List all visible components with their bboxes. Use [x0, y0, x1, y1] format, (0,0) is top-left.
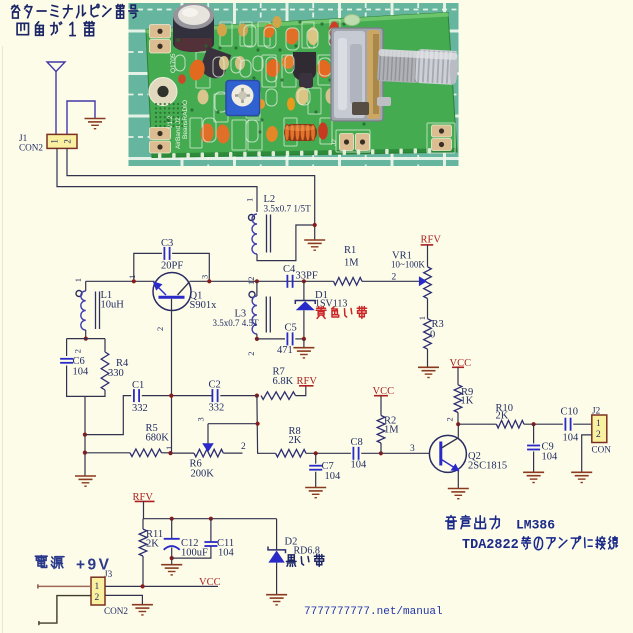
wire C5 left	[257, 338, 285, 340]
svg-text:1: 1	[95, 582, 100, 592]
svg-text:C8: C8	[351, 437, 363, 448]
left border artifact	[2, 46, 4, 633]
svg-text:2: 2	[445, 417, 455, 421]
transistor Q1	[153, 273, 191, 311]
capacitor C5	[287, 332, 292, 345]
wire node to R10	[458, 423, 496, 425]
label R7	[273, 367, 294, 388]
pin 3 label Q1	[200, 275, 210, 279]
pin 1 label R3	[417, 316, 427, 320]
svg-text:3: 3	[410, 444, 415, 454]
wire C11 top	[210, 519, 212, 542]
label R10	[496, 403, 514, 422]
pin 1 label Q1	[127, 275, 137, 279]
label Q1	[190, 291, 218, 312]
label R3	[430, 319, 444, 341]
ground near J1	[85, 119, 106, 129]
pin 2 label R6	[241, 442, 246, 452]
pin 12 label L3	[246, 277, 256, 286]
pin 2 label L1	[73, 349, 83, 353]
svg-text:C6: C6	[73, 356, 85, 367]
PCB photo	[129, 3, 459, 166]
svg-text:C2: C2	[209, 380, 221, 391]
pin 1 label L1	[73, 278, 83, 282]
ground below L2	[304, 240, 325, 250]
node C3 left	[132, 279, 136, 283]
capacitor C9	[527, 446, 540, 450]
svg-text:RFV: RFV	[421, 235, 442, 246]
pin 3 label Q2	[410, 444, 415, 454]
power port VCC R2	[373, 386, 395, 397]
diode D1 varactor	[295, 301, 315, 339]
wire J2 pin2 to ground	[582, 435, 592, 472]
wire J3 pin2 right	[105, 595, 142, 604]
label C3	[161, 238, 183, 272]
svg-text:C1: C1	[132, 380, 144, 391]
svg-text:1M: 1M	[384, 425, 399, 436]
capacitor C10	[565, 418, 570, 431]
svg-text:200K: 200K	[191, 469, 215, 480]
wire R3 to ground	[427, 349, 429, 367]
svg-text:3: 3	[200, 275, 210, 279]
wiper VR1	[419, 276, 427, 286]
resistor R4	[101, 352, 109, 390]
wire VCC to R9	[457, 367, 459, 385]
wire L1 top	[85, 281, 87, 291]
svg-text:1: 1	[73, 278, 83, 282]
resistor R6 pot	[194, 449, 223, 457]
label R4	[108, 358, 129, 379]
svg-text:104: 104	[563, 433, 580, 444]
ground below D1	[293, 348, 314, 358]
wire J1 pin2 to L2 ground node	[67, 148, 315, 240]
node R5 tap	[83, 451, 87, 455]
svg-text:RD6.8: RD6.8	[294, 546, 320, 557]
label yellow band	[316, 307, 366, 319]
svg-text:330: 330	[108, 368, 124, 379]
ground below J2	[571, 472, 592, 482]
wire R6 stub pin2	[223, 452, 242, 454]
pin 2 label VR1	[392, 273, 397, 283]
title line1 各ターミナルピン番号	[12, 4, 138, 18]
label R1	[344, 245, 359, 269]
caption amp connect	[462, 536, 617, 553]
label L1	[101, 290, 125, 311]
wire D2 down	[276, 519, 278, 550]
antenna	[47, 62, 65, 134]
svg-text:7777777777.net/manual: 7777777777.net/manual	[304, 606, 443, 618]
label C1	[132, 380, 148, 414]
svg-text:1: 1	[596, 419, 601, 429]
node wiper tap	[256, 422, 260, 426]
node R5 R6	[168, 451, 172, 455]
resistor R5	[130, 449, 162, 457]
label R2	[384, 416, 399, 436]
label R5	[146, 423, 170, 444]
wire R7 to RFV	[296, 386, 306, 395]
wire R2 to node	[380, 443, 382, 453]
svg-text:VCC: VCC	[199, 577, 221, 588]
wire VCC to R2	[380, 396, 382, 416]
svg-text:J2: J2	[592, 406, 601, 416]
svg-text:CON2: CON2	[19, 143, 43, 153]
capacitor C4	[287, 275, 292, 288]
label C12	[181, 538, 208, 559]
svg-text:2K: 2K	[289, 435, 302, 446]
label R9	[461, 387, 474, 407]
wire C7	[315, 453, 317, 487]
potentiometer VR1	[424, 267, 432, 299]
capacitor C11	[204, 542, 217, 546]
node C9 tap	[532, 422, 536, 426]
resistor R10	[496, 420, 524, 428]
svg-text:2K: 2K	[496, 411, 509, 422]
wire R11 top	[142, 519, 144, 529]
node Q1 base x C-row	[169, 394, 173, 398]
ground below J3	[132, 605, 153, 615]
svg-text:3.5x0.7 4.5T: 3.5x0.7 4.5T	[213, 318, 260, 328]
label black band	[286, 555, 324, 567]
wire J1 pin1 to L2	[57, 148, 257, 212]
capacitor C7	[309, 466, 322, 470]
wire C12 top	[171, 519, 173, 538]
wire R8 to C8	[306, 452, 351, 454]
svg-text:1: 1	[164, 446, 174, 450]
svg-text:471: 471	[277, 345, 293, 356]
wire C2 to R7 node	[220, 395, 257, 397]
node C1 tap	[83, 433, 87, 437]
pin 1 label L2	[245, 198, 255, 202]
wire R5 left	[85, 452, 130, 454]
svg-text:10~100K: 10~100K	[391, 260, 425, 270]
svg-text:3.5x0.7 1/5T: 3.5x0.7 1/5T	[264, 204, 312, 214]
svg-text:3: 3	[196, 417, 206, 421]
capacitor C1	[134, 389, 139, 402]
wire RFV bus	[144, 501, 277, 518]
node R2 bottom	[379, 451, 383, 455]
svg-text:20PF: 20PF	[161, 261, 183, 272]
wire C11 bottom	[172, 546, 211, 558]
svg-text:R3: R3	[432, 319, 444, 330]
ground below C6R4	[75, 476, 96, 486]
svg-text:6.8K: 6.8K	[273, 376, 294, 387]
node C3 right	[207, 279, 211, 283]
svg-text:2: 2	[73, 349, 83, 353]
pin 2 label Q1	[155, 327, 165, 331]
node C4 right	[302, 279, 306, 283]
svg-text:2: 2	[246, 352, 256, 356]
svg-text:104: 104	[351, 460, 368, 471]
svg-text:C10: C10	[561, 407, 579, 418]
wire L3 bottom	[256, 334, 258, 339]
svg-text:332: 332	[132, 403, 148, 414]
wire RF rail	[86, 280, 420, 282]
svg-text:1: 1	[245, 198, 255, 202]
node C12 top	[170, 517, 174, 521]
resistor R7	[261, 392, 296, 400]
resistor R11	[139, 529, 147, 556]
wire Q1 base down	[171, 299, 173, 454]
svg-text:2: 2	[155, 327, 165, 331]
node C11 bottom join	[170, 556, 174, 560]
label C9	[542, 442, 559, 463]
label C11	[217, 538, 235, 559]
wire C12 bottom	[171, 548, 173, 565]
ground below Q2	[448, 489, 469, 499]
wire R10 to C10	[524, 423, 563, 425]
wiper R6	[202, 424, 257, 453]
label C5	[277, 323, 297, 357]
svg-text:J1: J1	[19, 133, 28, 143]
svg-text:2: 2	[392, 273, 397, 283]
svg-text:R1: R1	[344, 245, 356, 256]
title line2 四角が1番	[17, 22, 94, 36]
wire D1 down	[303, 281, 305, 300]
label D2	[285, 537, 320, 557]
label C7	[322, 461, 342, 482]
node R11 bottom	[141, 584, 145, 588]
svg-text:S901x: S901x	[190, 300, 218, 311]
label D1	[315, 290, 347, 310]
svg-text:104: 104	[73, 367, 90, 378]
power port RFV mid	[297, 376, 318, 387]
svg-text:2: 2	[596, 430, 601, 440]
wire C5 right	[295, 338, 304, 340]
connector J2	[592, 415, 607, 443]
svg-text:LM386: LM386	[516, 518, 555, 533]
svg-text:2SC1815: 2SC1815	[468, 461, 507, 472]
capacitor C6	[60, 359, 73, 363]
node C7 tap	[314, 451, 318, 455]
wire C3 loop	[134, 253, 210, 281]
svg-text:680K: 680K	[146, 433, 170, 444]
ground below C12	[161, 565, 182, 575]
node L3 top	[255, 279, 259, 283]
svg-text:0: 0	[430, 330, 435, 341]
label J3	[104, 569, 113, 579]
power port VCC R9	[450, 358, 472, 369]
wire L1 bottom	[85, 330, 87, 339]
svg-text:1: 1	[50, 139, 60, 144]
inductor L2	[249, 214, 271, 254]
node L3 bottom	[255, 337, 259, 341]
label C6	[73, 356, 90, 378]
label R6	[190, 459, 215, 480]
label VR1	[391, 251, 425, 270]
capacitor C8	[353, 447, 358, 460]
label C2	[209, 380, 225, 414]
resistor R2	[377, 416, 385, 444]
svg-text:TDA2822: TDA2822	[462, 538, 519, 553]
svg-text:2: 2	[63, 139, 73, 144]
node R7 junction	[255, 394, 259, 398]
svg-text:C4: C4	[283, 264, 296, 275]
node C11 top	[209, 517, 213, 521]
svg-text:33PF: 33PF	[296, 271, 318, 282]
connector J3	[91, 577, 105, 605]
wire L3 top	[256, 281, 258, 296]
wire Q2 emitter down	[457, 471, 459, 489]
label power 9V	[35, 556, 111, 574]
wire battery minus	[39, 596, 91, 626]
label CON2 J3	[104, 606, 128, 616]
pin 3 label R6	[196, 417, 206, 421]
ground below R3	[418, 367, 439, 377]
node Q2 collector	[456, 422, 460, 426]
label R8	[289, 426, 302, 446]
label J2	[592, 406, 612, 455]
svg-text:2: 2	[95, 593, 100, 603]
svg-text:1K: 1K	[461, 396, 474, 407]
wire R7node to R8	[257, 396, 276, 454]
ground below C9	[523, 472, 544, 482]
wire C10 to J2	[573, 423, 592, 425]
wire C1 to C2	[142, 395, 213, 397]
wire battery plus	[38, 584, 91, 588]
diode D2 zener	[268, 547, 286, 595]
ground below D2	[266, 595, 287, 605]
node L2 ground junction	[313, 223, 317, 227]
svg-text:CON: CON	[592, 445, 612, 455]
label J1 CON2	[19, 133, 43, 153]
pin 2 label L3	[246, 352, 256, 356]
label C10	[561, 407, 580, 444]
wire R11 bottom	[142, 556, 144, 586]
svg-text:1: 1	[127, 275, 137, 279]
node D1 bottom	[302, 337, 306, 341]
label L2	[264, 194, 312, 214]
svg-text:2: 2	[241, 442, 246, 452]
svg-text:1: 1	[417, 316, 427, 320]
svg-text:104: 104	[542, 452, 559, 463]
pin 1 label R6	[164, 446, 174, 450]
svg-text:1M: 1M	[344, 258, 359, 269]
power port RFV bottom	[133, 492, 155, 503]
wire L2 bottom loop	[257, 225, 315, 261]
inductor L3	[249, 292, 270, 335]
wire Q2 collector up	[457, 424, 459, 438]
svg-text:100uF: 100uF	[181, 548, 208, 559]
node R11 top	[0, 0, 1, 1]
ground below C7	[305, 488, 326, 498]
wire VR1 to R3	[427, 299, 429, 319]
label C4	[283, 264, 318, 282]
label L3	[213, 309, 260, 329]
label Q2	[468, 451, 507, 472]
svg-text:C5: C5	[285, 323, 297, 334]
label R11	[146, 529, 163, 550]
svg-text:10uH: 10uH	[101, 300, 125, 311]
caption audio out	[446, 516, 556, 533]
pin 2 label Q2	[445, 417, 455, 421]
resistor R1	[334, 278, 363, 286]
wire C8 to Q2	[361, 452, 429, 454]
wire D1 ground	[303, 339, 305, 348]
resistor R3	[424, 319, 432, 349]
node L1 bottom	[84, 337, 88, 341]
resistor R8	[276, 450, 306, 458]
svg-text:C3: C3	[161, 238, 173, 249]
wire J1 pin2 to ground	[67, 101, 95, 134]
capacitor C2	[212, 389, 217, 402]
svg-text:332: 332	[209, 403, 225, 414]
wire center down	[84, 396, 86, 476]
wire RFV to VR1	[427, 245, 429, 267]
wire R6 left	[171, 452, 195, 454]
label VCC at J3	[199, 577, 221, 588]
wire R5 right	[162, 452, 171, 454]
svg-text:104: 104	[325, 471, 342, 482]
power port RFV top	[421, 235, 442, 246]
resistor R9	[454, 385, 462, 413]
wire J3 pin1 VCC	[105, 585, 218, 587]
wire C6R4 loop	[67, 339, 105, 397]
svg-text:CON2: CON2	[104, 606, 128, 616]
capacitor C3	[164, 247, 169, 260]
label C8	[351, 437, 368, 471]
caption url	[304, 606, 443, 618]
connector J1	[47, 134, 77, 148]
svg-text:2K: 2K	[146, 539, 159, 550]
wire R9 to node	[457, 413, 459, 425]
transistor Q2	[429, 435, 466, 472]
inductor L1	[76, 291, 100, 331]
wire C9	[533, 424, 535, 472]
svg-text:12: 12	[246, 277, 256, 286]
wire C1 branch	[85, 396, 131, 435]
capacitor C12 electrolytic	[164, 539, 180, 550]
svg-text:104: 104	[218, 548, 235, 559]
